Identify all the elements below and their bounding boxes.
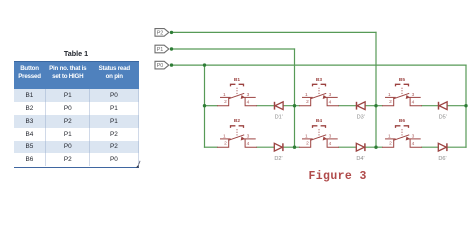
diode D3' <box>357 102 366 121</box>
svg-text:D2': D2' <box>274 156 282 162</box>
table row B1 <box>14 89 139 102</box>
svg-text:B2: B2 <box>234 118 240 124</box>
wire vertical from P1 down <box>294 49 296 147</box>
wire bottom rail segment 2 <box>257 146 275 148</box>
net flag P1 <box>155 45 169 53</box>
junction P2 vertical x bottom rail <box>374 146 377 149</box>
svg-text:B4: B4 <box>316 118 322 124</box>
wire bottom rail segment 3 <box>283 146 299 148</box>
wire top rail segment 3 <box>283 105 299 107</box>
table row B4 <box>14 128 139 141</box>
table bottom border <box>14 167 139 169</box>
table row B2 <box>14 102 139 115</box>
wire P1 horizontal <box>172 48 295 50</box>
table row B6 <box>14 153 139 166</box>
diode D5' <box>439 102 448 121</box>
svg-text:B5: B5 <box>399 77 405 83</box>
svg-text:D3': D3' <box>357 115 365 121</box>
wire top rail segment 2 <box>257 105 275 107</box>
wire bottom rail segment 4 <box>339 146 357 148</box>
svg-text:P2: P2 <box>157 30 164 36</box>
svg-text:D6': D6' <box>438 156 446 162</box>
svg-text:D5': D5' <box>439 115 447 121</box>
table row B5 <box>14 141 139 154</box>
junction right vertical x top rail <box>464 104 467 107</box>
button B1 <box>217 77 257 106</box>
cursor mark near table corner <box>136 161 140 168</box>
svg-text:D1': D1' <box>275 115 283 121</box>
net flag P0 <box>155 61 169 69</box>
figure caption <box>309 170 379 183</box>
wire top rail segment 6 <box>422 105 439 107</box>
wire bottom rail segment 7 <box>447 146 466 148</box>
wire bottom rail segment 1 <box>205 146 218 148</box>
wire top rail segment 7 <box>447 105 466 107</box>
diode D2' <box>274 143 283 162</box>
junction at P0 flag <box>170 63 173 66</box>
net flag P2 <box>155 29 169 37</box>
wire top rail segment 1 <box>205 105 218 107</box>
wire vertical from P2 down <box>375 32 377 147</box>
junction P1 vertical x bottom rail <box>293 146 296 149</box>
wire vertical from P0 to bottom rail left <box>204 65 206 147</box>
svg-text:B3: B3 <box>316 77 322 83</box>
junction left vertical x top rail <box>203 104 206 107</box>
junction at P2 flag <box>170 31 173 34</box>
diode D4' <box>356 143 365 162</box>
table title <box>51 49 101 58</box>
button B6 <box>382 118 422 147</box>
wire bottom rail segment 6 <box>422 146 439 148</box>
svg-text:P0: P0 <box>157 63 164 69</box>
table row B3 <box>14 115 139 128</box>
wire bottom rail segment 5 <box>365 146 382 148</box>
wire P2 horizontal <box>172 31 377 33</box>
junction P1 vertical x top rail <box>293 104 296 107</box>
junction P2 vertical x top rail <box>374 104 377 107</box>
wire vertical right side from P0 <box>465 65 467 147</box>
diode D1' <box>275 102 284 121</box>
svg-text:P1: P1 <box>157 47 164 53</box>
junction at P1 flag <box>170 47 173 50</box>
button B2 <box>217 118 257 147</box>
junction P0 x left vertical <box>203 63 206 66</box>
wire P0 horizontal <box>172 64 467 66</box>
table header row <box>14 61 139 90</box>
button B4 <box>299 118 339 147</box>
button B5 <box>382 77 422 106</box>
diode D6' <box>438 143 447 162</box>
button B3 <box>299 77 339 106</box>
svg-text:B1: B1 <box>234 77 240 83</box>
svg-text:B6: B6 <box>399 118 405 124</box>
wire top rail segment 5 <box>365 105 382 107</box>
wire top rail segment 4 <box>339 105 357 107</box>
svg-text:D4': D4' <box>356 156 364 162</box>
